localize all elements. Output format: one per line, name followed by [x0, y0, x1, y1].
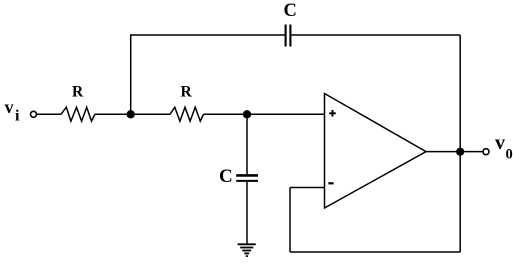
resistor R1: [61, 107, 95, 121]
wire feedback bottom: [290, 251, 460, 253]
wire C2 to ground: [246, 182, 248, 244]
capacitor C1 (feedback, top): [286, 25, 291, 47]
terminal Vo: [483, 149, 489, 155]
svg-text:0: 0: [506, 147, 513, 163]
svg-text:C: C: [284, 1, 297, 21]
wire R1 to node A: [95, 113, 131, 115]
node A junction dot: [127, 110, 135, 118]
svg-text:R: R: [181, 84, 193, 101]
op-amp U1 minus input marker: [328, 182, 333, 184]
node output junction dot: [456, 148, 464, 156]
wire node B to op-amp plus input: [247, 113, 325, 115]
wire node A to R2: [131, 113, 170, 115]
wire minus input left: [290, 187, 325, 189]
svg-text:i: i: [15, 108, 20, 125]
wire right vertical from top rail through output node to feedback bottom: [459, 35, 461, 252]
node B junction dot: [243, 110, 251, 118]
wire top rail left segment: [130, 34, 285, 36]
wire op-amp output: [426, 151, 483, 153]
svg-text:v: v: [495, 132, 505, 154]
label Vo: [495, 132, 513, 163]
label Vi: [5, 97, 21, 125]
wire input to R1: [37, 113, 61, 115]
svg-text:R: R: [72, 84, 84, 101]
capacitor C2 (shunt, to ground): [236, 175, 258, 181]
wire feedback left vertical: [289, 188, 291, 253]
op-amp U1: [325, 94, 427, 209]
wire node B down to C2: [246, 114, 248, 174]
ground: [238, 244, 256, 256]
svg-text:C: C: [219, 166, 233, 187]
wire node A up to top rail: [130, 35, 132, 114]
svg-text:v: v: [5, 97, 14, 117]
op-amp U1 plus input marker: [329, 110, 336, 117]
resistor R2: [170, 107, 204, 121]
terminal Vi: [31, 111, 37, 117]
wire R2 to node B: [204, 113, 248, 115]
wire top rail right segment: [292, 34, 461, 36]
